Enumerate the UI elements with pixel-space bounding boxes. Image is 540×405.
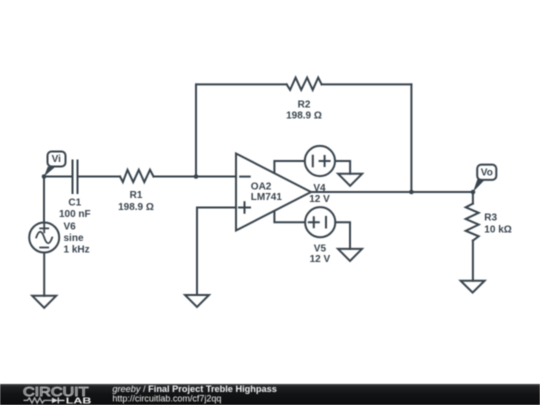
junction dot inverting input / feedback [194,174,199,179]
svg-text:12 V: 12 V [310,254,331,265]
svg-text:OA2: OA2 [251,182,272,193]
wire non-inverting input down to ground [196,208,198,296]
svg-text:http://circuitlab.com/cf7j2qq: http://circuitlab.com/cf7j2qq [112,394,221,404]
V4 minus terminal bar [312,156,314,167]
ground V4 [338,174,362,186]
wire op-amp output to Vo [311,191,473,193]
wire R1 to op-amp inverting input [154,176,237,178]
CircuitLab logo diode [52,398,58,404]
wire V4 to ground [335,161,350,174]
ground R3 [461,281,485,293]
junction dot node Vi [42,174,47,179]
CircuitLab logo waveform resistor [24,398,52,403]
V4 plus symbol [320,156,330,166]
junction dot feedback / output [409,190,414,195]
svg-text:100 nF: 100 nF [59,209,91,220]
wire C1 to R1 [78,176,121,178]
V6 plus symbol [40,224,48,232]
svg-text:10 kΩ: 10 kΩ [484,224,511,235]
resistor R3 [466,204,479,241]
svg-text:C1: C1 [68,197,81,208]
wire Vi junction down to V6 [43,177,45,223]
wire V5 to ground [335,222,350,249]
op-amp non-inverting input plus symbol [239,202,250,213]
resistor R2 [287,78,322,90]
voltage source V4 [305,146,335,176]
svg-text:LAB: LAB [66,396,92,405]
wire op-amp V- pin to V5 [274,211,305,222]
svg-text:LM741: LM741 [251,192,283,203]
wire Vi junction to C1 left plate [44,176,73,178]
svg-text:V5: V5 [314,244,327,255]
wire non-inverting input left [197,207,236,209]
svg-text:V6: V6 [64,221,77,232]
ground non-inverting input [185,295,209,307]
svg-text:sine: sine [64,233,84,244]
ground V5 [338,249,362,261]
svg-text:198.9 Ω: 198.9 Ω [118,202,154,213]
wire op-amp V+ pin to V4 [274,161,304,173]
svg-text:1 kHz: 1 kHz [64,245,90,256]
V5 plus symbol [309,217,319,227]
voltage source V6 [29,223,59,253]
node Vi flag box [44,152,66,177]
svg-text:12 V: 12 V [309,194,330,205]
wire feedback left vertical [195,84,197,176]
V6 sine symbol [36,232,52,244]
svg-text:Vi: Vi [52,154,61,165]
svg-text:Vo: Vo [481,167,493,178]
wire Vo to R3 [472,192,474,204]
V5 minus terminal bar [325,217,327,228]
node Vo flag box [473,165,496,192]
svg-text:R1: R1 [130,190,143,201]
voltage source V5 [305,207,335,237]
capacitor C1 [73,161,78,194]
ground V6 [32,296,56,308]
resistor R1 [120,170,154,182]
svg-text:R3: R3 [484,212,497,223]
op-amp inverting input minus symbol [240,176,250,178]
svg-text:greeby / Final Project Treble: greeby / Final Project Treble Highpass [112,384,276,394]
wire R2 to feedback right vertical [322,83,412,85]
wire R3 to ground [472,241,474,281]
V6 minus symbol [40,247,48,249]
wire V6 to ground [43,253,45,296]
junction dot node Vo [471,190,476,195]
wire feedback right vertical down to output [410,84,412,192]
svg-text:V4: V4 [313,183,326,194]
op-amp OA2 triangle [236,154,311,231]
wire feedback top left to R2 [196,83,287,85]
svg-text:198.9 Ω: 198.9 Ω [286,111,322,122]
svg-text:R2: R2 [298,99,311,110]
